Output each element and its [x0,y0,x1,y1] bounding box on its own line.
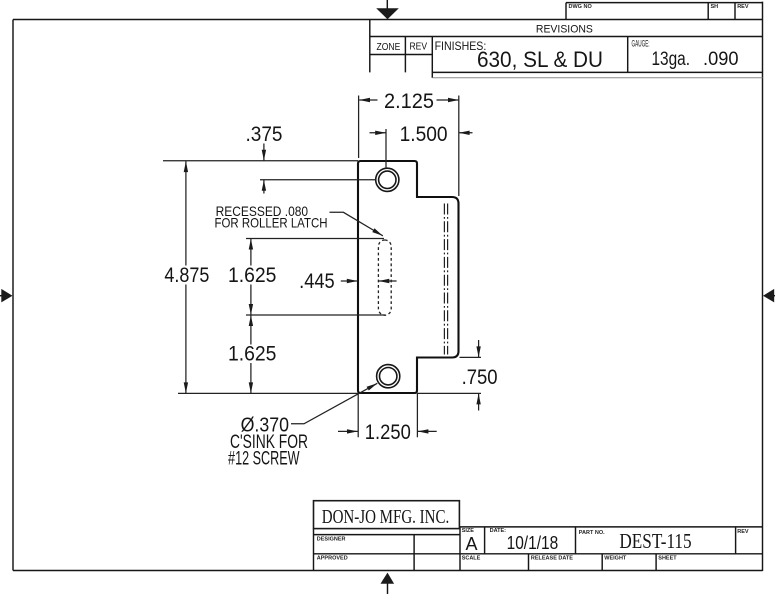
svg-text:SCALE: SCALE [462,555,481,561]
svg-text:630, SL & DU: 630, SL & DU [477,47,603,72]
dim 1.625 upper [228,239,277,315]
top screw hole [376,168,399,191]
dim 1.250 [338,421,437,444]
svg-text:DON-JO MFG. INC.: DON-JO MFG. INC. [322,507,450,528]
extension lines [163,96,481,438]
plate outline [358,161,459,393]
svg-text:.375: .375 [246,123,283,146]
centering mark bottom [381,573,395,594]
svg-text:A: A [465,534,477,554]
centering mark top [376,0,399,19]
svg-text:.750: .750 [462,366,498,389]
dim 4.875 [164,161,209,393]
svg-text:SHEET: SHEET [658,555,677,561]
centering mark left [0,289,13,303]
recess dashed slot [378,240,391,315]
dim 1.625 lower [228,315,277,393]
svg-text:FOR ROLLER LATCH: FOR ROLLER LATCH [215,214,328,230]
top-right dwg-no strip [566,3,763,20]
bottom screw hole [377,365,400,388]
svg-text:1.625: 1.625 [228,343,277,366]
svg-text:2.125: 2.125 [384,90,434,113]
revisions block [370,20,763,78]
svg-text:DESIGNER: DESIGNER [317,537,346,543]
svg-text:DEST-115: DEST-115 [619,529,691,553]
svg-text:DATE:: DATE: [490,528,507,534]
svg-text:4.875: 4.875 [164,264,209,287]
svg-text:RELEASE DATE: RELEASE DATE [531,555,573,561]
svg-text:1.250: 1.250 [365,421,411,444]
dim .445 [299,270,396,293]
svg-text:DWG NO: DWG NO [569,4,593,10]
svg-text:.090: .090 [703,49,739,70]
dim 2.125 [359,90,459,113]
svg-text:PART NO.: PART NO. [579,530,605,536]
svg-text:GAUGE:: GAUGE: [632,39,650,49]
dim 1.500 [370,123,473,146]
svg-text:ZONE: ZONE [377,41,401,53]
svg-text:1.625: 1.625 [228,264,277,287]
svg-text:1.500: 1.500 [400,123,448,146]
svg-text:WEIGHT: WEIGHT [604,555,627,561]
leader screw note [228,383,377,469]
svg-text:REVISIONS: REVISIONS [536,23,593,35]
svg-text:REV: REV [737,4,749,10]
lip center lines dash-dot [444,204,447,355]
svg-text:SH: SH [711,4,719,10]
leader recessed note [215,203,383,236]
svg-text:#12 SCREW: #12 SCREW [228,448,300,469]
svg-text:APPROVED: APPROVED [317,555,348,561]
dim .375 [246,123,283,193]
centering mark right [763,289,775,303]
title block [314,501,763,571]
dim .750 [462,340,498,411]
svg-text:10/1/18: 10/1/18 [507,532,559,553]
svg-text:REV: REV [410,41,428,53]
svg-text:13ga.: 13ga. [652,49,691,70]
svg-text:REV: REV [737,529,749,535]
svg-text:.445: .445 [299,270,335,293]
